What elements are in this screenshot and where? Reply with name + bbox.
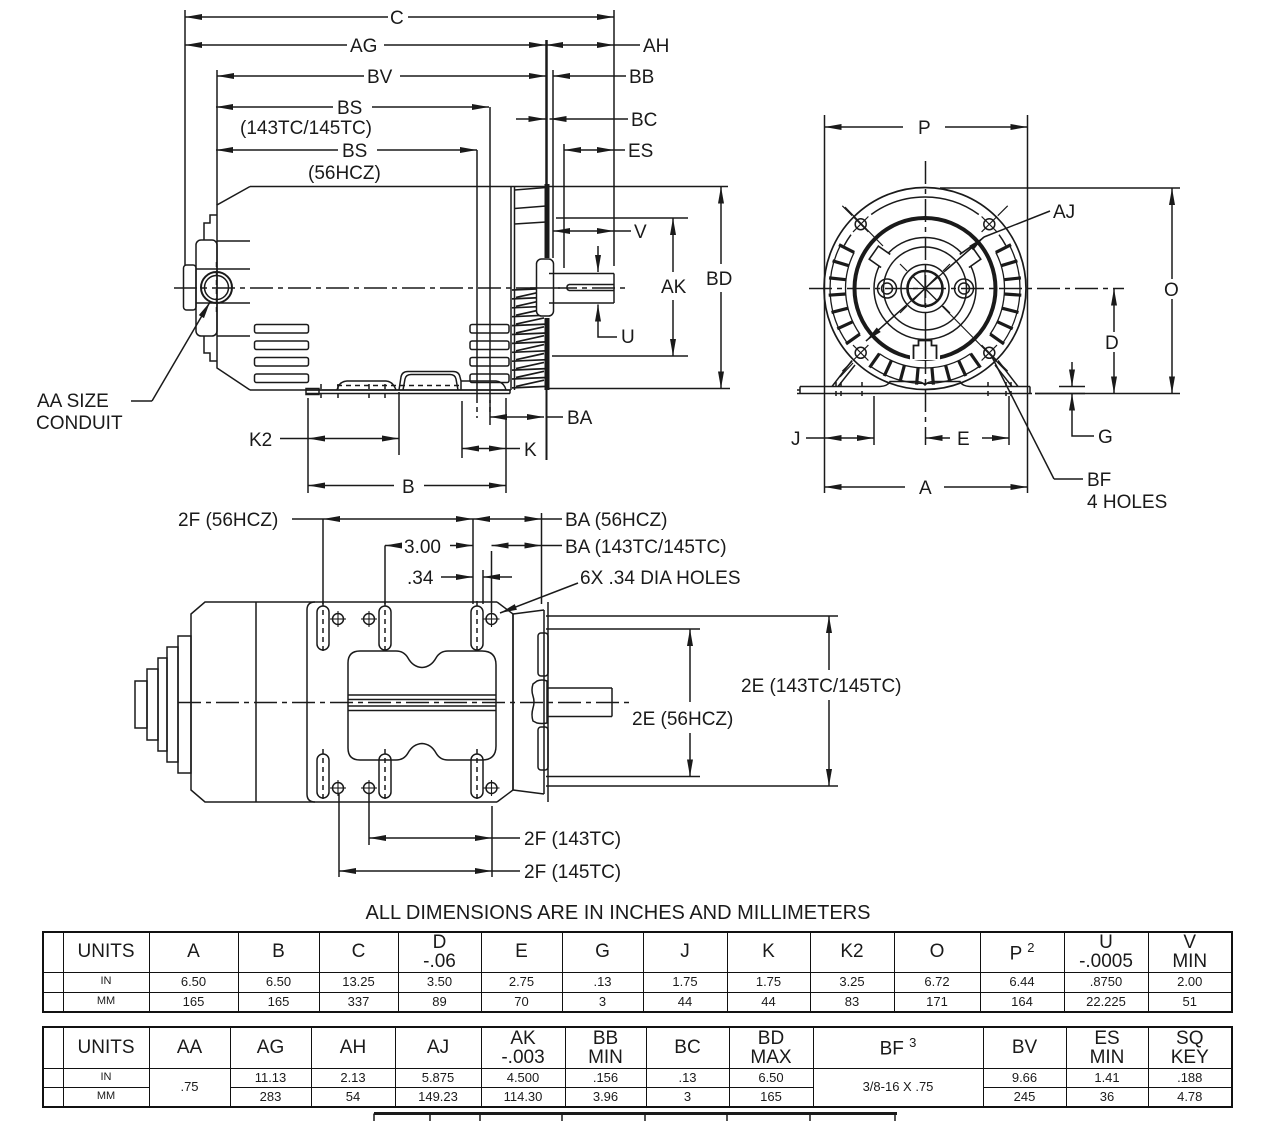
foot pad 2 <box>399 372 461 391</box>
svg-text:ES: ES <box>628 141 653 162</box>
svg-text:BA: BA <box>567 408 593 429</box>
svg-text:G: G <box>1098 427 1113 448</box>
bottom clamp tab <box>910 336 940 364</box>
svg-text:P: P <box>918 118 931 139</box>
foot hidden hole lines <box>321 384 490 418</box>
rear housing block <box>191 602 256 802</box>
svg-text:AA SIZE: AA SIZE <box>37 391 109 412</box>
svg-text:U: U <box>621 327 635 348</box>
6X .34 DIA HOLES label and leader <box>500 568 741 613</box>
dimension BB leader <box>553 67 654 88</box>
upper-left clamp notch <box>869 246 893 269</box>
BF mounting holes with crosses <box>853 217 997 361</box>
inner rim arcs <box>844 235 851 246</box>
fan casting fins <box>512 289 546 388</box>
svg-text:K2: K2 <box>249 430 272 451</box>
AA SIZE CONDUIT label and leader <box>36 302 210 434</box>
svg-text:2F (143TC): 2F (143TC) <box>524 829 621 850</box>
svg-text:E: E <box>957 429 970 450</box>
svg-text:BF: BF <box>1087 470 1111 491</box>
dimension K <box>462 398 537 493</box>
AJ label and leader <box>984 202 1075 237</box>
dimension AK <box>552 218 688 356</box>
svg-text:O: O <box>1164 280 1179 301</box>
svg-text:BD: BD <box>706 269 732 290</box>
dimension BA 143TC/145TC <box>492 537 727 558</box>
end bell top view <box>513 602 548 802</box>
svg-text:2F (56HCZ): 2F (56HCZ) <box>178 510 278 531</box>
title <box>0 902 1236 925</box>
shaft top view <box>547 688 612 717</box>
svg-text:V: V <box>634 222 647 243</box>
dimension 2F 143TC <box>369 794 621 877</box>
P / A extension lines <box>824 115 826 493</box>
clamp band rails <box>830 245 1020 383</box>
dimension V <box>553 222 647 243</box>
svg-text:AK: AK <box>661 277 687 298</box>
rear cap steps <box>135 636 191 773</box>
svg-text:4 HOLES: 4 HOLES <box>1087 492 1167 513</box>
shaft circle (bold) <box>908 271 943 306</box>
svg-text:BA (56HCZ): BA (56HCZ) <box>565 510 667 531</box>
svg-text:(56HCZ): (56HCZ) <box>308 163 381 184</box>
svg-text:BS: BS <box>337 98 362 119</box>
centerline <box>174 287 628 289</box>
outer shell circle <box>824 188 1026 390</box>
dimension BS 56HCZ <box>216 141 477 184</box>
C-face edge (bold) <box>545 40 548 184</box>
vertical centerline <box>925 161 927 445</box>
svg-text:B: B <box>402 477 415 498</box>
foot baseline <box>306 389 510 395</box>
side bolt bosses <box>878 279 974 298</box>
vent louvres right <box>470 325 509 383</box>
svg-text:BA (143TC/145TC): BA (143TC/145TC) <box>565 537 727 558</box>
dimension G <box>1035 362 1113 448</box>
dimension J <box>791 396 874 450</box>
clamp band rungs <box>829 245 1022 385</box>
bolt circle r41.5 <box>884 247 967 330</box>
dimension BS 143TC/145TC <box>216 98 489 139</box>
face circle r51 <box>874 238 976 340</box>
NW-SE diagonal centerline segments <box>845 207 1005 370</box>
45deg tick dashes at r28 <box>900 264 950 313</box>
svg-text:AJ: AJ <box>1053 202 1075 223</box>
dimension A <box>825 478 1028 499</box>
mounting frame outline <box>307 602 315 610</box>
svg-text:C: C <box>390 8 404 29</box>
foot pad 1 <box>337 381 396 390</box>
dimension 2E 56HCZ <box>546 629 733 777</box>
svg-text:J: J <box>791 429 801 450</box>
extension lines above top view <box>322 519 324 604</box>
AJ bolt-circle diagonal with arrows <box>866 237 984 341</box>
conduit opening circle <box>201 272 232 303</box>
foot right pad <box>461 381 506 390</box>
dimension C <box>185 8 614 29</box>
svg-text:CONDUIT: CONDUIT <box>36 413 123 434</box>
dimension BA 56HCZ <box>473 510 667 531</box>
dimension ES <box>564 141 653 162</box>
end view foot plate <box>797 382 1032 394</box>
horizontal centerline <box>809 288 1124 290</box>
upper-right clamp notch <box>957 246 981 269</box>
shaft <box>549 274 614 304</box>
svg-text:(143TC/145TC): (143TC/145TC) <box>240 118 372 139</box>
dimension 2F 56HCZ <box>178 510 473 531</box>
mounting slots bottom row <box>317 749 483 803</box>
stator band lines <box>348 694 496 696</box>
vent louvres left <box>255 325 309 383</box>
svg-text:2E (143TC/145TC): 2E (143TC/145TC) <box>741 676 902 697</box>
shaft boss top view <box>532 680 547 724</box>
dimension 2E 143TC/145TC <box>546 616 902 786</box>
motor body outline <box>217 187 250 391</box>
mounting slots top row <box>317 601 483 655</box>
C-face rabbet circle (bold) <box>855 218 996 359</box>
cropped third table fragment at bottom <box>374 1114 897 1121</box>
svg-text:AG: AG <box>350 36 377 57</box>
dimension D <box>1105 289 1119 394</box>
dimension B <box>308 477 506 498</box>
dimension BV <box>217 67 546 88</box>
svg-text:6X .34 DIA HOLES: 6X .34 DIA HOLES <box>580 568 741 589</box>
svg-text:A: A <box>919 478 932 499</box>
svg-text:3.00: 3.00 <box>404 537 441 558</box>
svg-text:K: K <box>524 440 537 461</box>
dimension 3.00 <box>385 537 473 558</box>
dimension K2 <box>249 392 399 493</box>
dimension BC leader <box>516 110 657 131</box>
centerline top view <box>178 702 629 704</box>
keyway <box>567 285 614 291</box>
45deg centerline dashes outside holes <box>842 206 1007 371</box>
small cross holes <box>330 611 500 796</box>
main body top edges <box>256 601 497 603</box>
svg-text:D: D <box>1105 333 1119 354</box>
svg-text:.34: .34 <box>407 568 434 589</box>
svg-text:2F (145TC): 2F (145TC) <box>524 862 621 883</box>
frame window <box>348 651 496 760</box>
svg-text:BS: BS <box>342 141 367 162</box>
svg-text:BC: BC <box>631 110 657 131</box>
end bell bands top <box>515 188 547 191</box>
BF label and leader <box>992 357 1167 513</box>
shaft cross <box>908 272 942 306</box>
dimension AH <box>546 36 669 57</box>
boss circle <box>901 265 949 313</box>
dimension table 2 <box>42 1026 1233 1108</box>
dimension BA <box>490 400 593 429</box>
dimension E <box>926 396 1010 450</box>
dimension BD <box>549 187 732 389</box>
dimension 2F 145TC <box>339 794 621 883</box>
svg-text:2E (56HCZ): 2E (56HCZ) <box>632 709 733 730</box>
foot hidden hole ticks <box>836 382 1011 397</box>
NE-SW dash below lower-left hole <box>840 363 853 377</box>
conduit box front cap <box>196 240 217 336</box>
dimension O <box>940 188 1180 394</box>
dimension U <box>598 246 635 348</box>
dimension table 1 <box>42 931 1233 1013</box>
dimension AG <box>185 36 546 57</box>
foot gussets <box>832 361 1018 387</box>
shaft bearing boss <box>537 259 554 316</box>
extension lines top <box>184 10 186 265</box>
svg-text:BB: BB <box>629 67 654 88</box>
svg-text:AH: AH <box>643 36 669 57</box>
svg-text:BV: BV <box>367 67 393 88</box>
dimension P <box>825 118 1028 139</box>
dimension .34 <box>407 568 512 589</box>
